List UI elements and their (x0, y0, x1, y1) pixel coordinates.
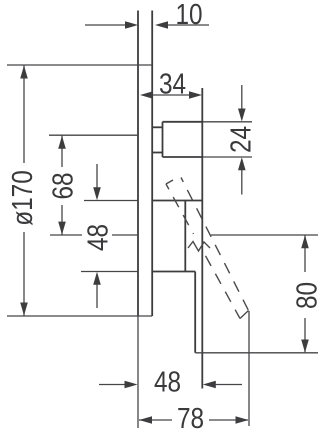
arrowhead 78 left (139, 416, 152, 424)
arrowhead dia170 bottom (20, 303, 28, 316)
svg-text:48: 48 (82, 224, 114, 251)
extension line 78 right (248, 311, 250, 426)
arrowhead 80 bottom (301, 340, 309, 353)
extension line 24 top (203, 121, 252, 123)
arrowhead 24 top (238, 109, 246, 122)
stub top edge (152, 126, 162, 128)
svg-text:68: 68 (47, 172, 79, 199)
arrowhead 78 right (236, 416, 249, 424)
dimension line 10 right tail (166, 24, 209, 26)
wall left line (137, 11, 139, 317)
arrowhead 80 top (301, 235, 309, 248)
dashed lever bottom cap dash (240, 311, 249, 319)
svg-text:78: 78 (177, 402, 204, 432)
knob box left edge (162, 122, 164, 157)
extension line dia170 bottom and wall cap (7, 315, 152, 317)
arrowhead dia170 top (20, 66, 28, 79)
knob box top edge (163, 121, 203, 123)
body top edge (152, 200, 202, 202)
dimension line 68 lower segment (61, 205, 63, 235)
extension line lever axis left b (112, 234, 138, 236)
extension line lever axis left a (50, 234, 82, 236)
arrowhead 48v top (93, 187, 101, 200)
arrowhead 24 bottom (238, 157, 246, 170)
extension line 68 top (49, 134, 138, 136)
svg-text:48: 48 (154, 366, 181, 398)
dimension line 80 upper segment (304, 236, 306, 273)
arrowhead 34 left (140, 91, 153, 99)
extension line dia170 top (7, 64, 152, 66)
dimension 48h left arrow tail (99, 384, 126, 386)
arrowhead 48h right (203, 381, 216, 389)
wall right line (151, 11, 153, 317)
dimension 48v bottom arrow tail (96, 282, 98, 308)
arrowhead 48h left (125, 381, 138, 389)
lever left edge (194, 272, 196, 353)
dimension line 34 (153, 94, 190, 96)
lever break mark zigzag (188, 242, 210, 252)
arrowhead 48v bottom (93, 272, 101, 285)
stub bottom edge (152, 152, 162, 154)
dimension line 78 left segment (139, 419, 172, 421)
dimension line 68 upper segment (61, 136, 63, 168)
dimension 48h right arrow tail (214, 384, 242, 386)
dashed lever top cap dash (166, 180, 173, 184)
svg-text:34: 34 (159, 67, 186, 99)
arrowhead 68 bottom (58, 222, 66, 235)
body right long vertical (201, 88, 203, 389)
dashed lever edge B (181, 178, 249, 311)
extension line 48v top (84, 200, 138, 202)
extension line 80 top (211, 234, 318, 236)
extension line 80 bottom and lever cap (195, 352, 318, 354)
dimension line dia170 lower segment (23, 232, 25, 316)
arrowhead 10 right (155, 21, 168, 29)
dashed lever edge A lower part (206, 256, 241, 319)
knob box bottom edge (163, 156, 203, 158)
svg-text:24: 24 (225, 126, 257, 153)
dimension 24 bottom arrow tail (241, 168, 243, 195)
dimension line 80 lower segment (304, 318, 306, 352)
svg-text:80: 80 (291, 282, 320, 309)
dimension line dia170 upper segment (23, 66, 25, 164)
dimension line 10 left tail (85, 24, 127, 26)
body inner vertical line (184, 201, 186, 272)
svg-text:ø170: ø170 (6, 170, 38, 226)
arrowhead 34 right (189, 91, 202, 99)
arrowhead 10 left (125, 21, 138, 29)
dimension 24 top arrow tail (241, 85, 243, 111)
plate bottom edge (152, 271, 195, 273)
dashed lever edge A upper part (166, 184, 194, 234)
dimension line 78 right segment (209, 419, 248, 421)
extension line 24 bottom (203, 156, 252, 158)
extension line wall left lower (137, 316, 139, 428)
svg-text:10: 10 (175, 0, 202, 31)
arrowhead 68 top (58, 136, 66, 149)
dimension 48v top arrow tail (96, 164, 98, 190)
extension line 48v bottom (81, 271, 138, 273)
